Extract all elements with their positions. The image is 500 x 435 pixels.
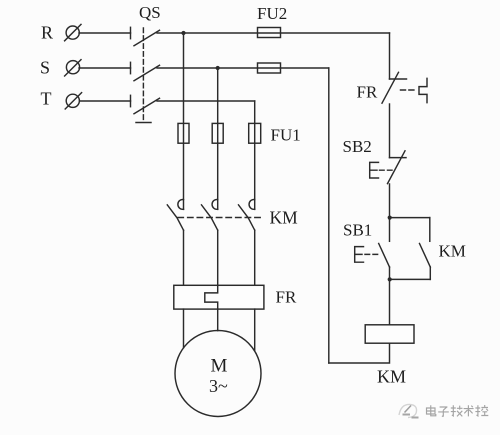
wire node B to KM coil — [389, 279, 391, 324]
fuse FU2 body — [258, 28, 281, 38]
pushbutton SB1 actuator dashed link — [365, 253, 379, 255]
fuse FU1-1 body — [178, 123, 189, 143]
wire S terminal to QS — [79, 67, 131, 69]
pushbutton SB1 actuator E — [355, 247, 364, 263]
QS blade S — [134, 65, 160, 81]
contactor KM main contact 3 arc — [249, 200, 255, 210]
wire control return riser — [328, 68, 330, 363]
wire SB1 lower terminal — [389, 267, 391, 279]
svg-text:SB2: SB2 — [343, 137, 372, 156]
watermark text zi — [438, 407, 449, 417]
pushbutton SB2 NC contact bar — [390, 157, 407, 159]
contactor KM main contact 3 blade — [239, 205, 255, 230]
thermal relay FR NC contact bar — [390, 78, 407, 80]
pushbutton SB2 blade — [388, 151, 406, 184]
contactor KM aux contact blade — [420, 244, 431, 268]
fuse FU1-3 body — [249, 123, 261, 143]
contactor KM main contact 2 blade — [202, 205, 218, 230]
node R terminal — [65, 24, 81, 40]
wire phase 2 FR to motor — [217, 309, 219, 331]
pushbutton SB1 blade — [379, 244, 390, 268]
svg-text:T: T — [41, 88, 52, 108]
contactor KM main contact 1 blade — [167, 205, 183, 230]
wire control hot: top right drop to FR contact — [389, 33, 391, 79]
wire phase T: QS to corner — [157, 100, 255, 102]
node B junction dot — [388, 277, 392, 281]
svg-text:QS: QS — [139, 3, 161, 22]
pushbutton SB1 upper terminal wire — [389, 218, 391, 242]
QS fixed contact tick S — [130, 62, 132, 73]
svg-text:FR: FR — [357, 83, 378, 102]
watermark text dian — [427, 405, 436, 416]
pushbutton SB2 actuator dashed link — [380, 169, 393, 171]
wire phase S vertical drop through FU1-2 — [217, 68, 219, 209]
node junction dot S / FU1-2 tap — [216, 66, 220, 70]
watermark logo — [399, 404, 419, 417]
wire R terminal to QS — [79, 32, 131, 34]
QS fixed contact tick R — [130, 27, 132, 38]
motor M body circle — [175, 331, 261, 417]
wire phase 1 FR to motor — [183, 309, 185, 348]
fuse FU1-2 body — [212, 123, 223, 143]
svg-text:3~: 3~ — [209, 376, 228, 396]
wire phase S: QS to fuse to control return corner — [157, 67, 329, 69]
thermal relay FR NC contact blade — [382, 72, 399, 103]
svg-text:FU2: FU2 — [257, 4, 287, 23]
wire phase R vertical drop through FU1-1 — [183, 33, 185, 209]
svg-text:S: S — [40, 57, 50, 77]
thermal relay FR heater element — [205, 285, 218, 309]
QS linkage dashed line — [142, 28, 144, 120]
pushbutton SB2 actuator E — [370, 162, 379, 178]
contactor KM aux contact upper wire — [429, 218, 431, 242]
wire phase 1 KM to FR box — [183, 230, 185, 285]
node A junction dot — [388, 216, 392, 220]
svg-text:M: M — [211, 356, 228, 377]
wire phase 3 FR to motor — [254, 309, 256, 351]
watermark text ji — [451, 405, 463, 416]
wire T terminal to QS — [80, 100, 131, 102]
svg-text:KM: KM — [270, 208, 299, 228]
wire KM coil to control return — [329, 343, 390, 363]
svg-text:R: R — [41, 23, 53, 43]
node S terminal — [65, 60, 81, 76]
contactor KM coil — [365, 325, 414, 343]
contactor KM main contact 2 arc — [212, 200, 218, 210]
svg-text:KM: KM — [439, 242, 466, 261]
thermal relay FR heater box — [174, 285, 264, 309]
svg-text:SB1: SB1 — [343, 220, 372, 239]
thermal relay FR trip dashed link — [401, 89, 418, 91]
svg-text:FR: FR — [276, 288, 297, 307]
svg-text:KM: KM — [377, 367, 406, 387]
wire phase R: QS to FU2 to right corner — [157, 32, 390, 34]
QS blade T — [134, 98, 160, 114]
wire KM aux branch bottom — [390, 278, 431, 280]
wire phase T vertical drop through FU1-3 — [254, 101, 256, 209]
wire phase 3 KM to FR box — [254, 230, 256, 285]
QS fixed contact tick T — [130, 95, 132, 106]
wire FR contact to SB2 — [389, 104, 391, 158]
watermark text shu — [464, 405, 474, 416]
svg-text:FU1: FU1 — [271, 126, 301, 145]
wire phase 2 KM to FR box — [217, 230, 219, 285]
fuse FU2b body (S phase control fuse) — [258, 63, 281, 73]
wire SB2 to node A — [389, 184, 391, 218]
wire node A to KM aux branch top — [390, 217, 430, 219]
QS linkage bottom bar — [136, 122, 151, 124]
thermal relay FR trip element symbol — [419, 78, 427, 102]
contactor KM linkage dashed line — [178, 217, 264, 219]
node T terminal — [65, 93, 81, 109]
node junction dot R / FU1-1 tap — [181, 31, 185, 35]
watermark text kong — [475, 405, 488, 416]
wire KM aux lower terminal — [429, 267, 431, 279]
contactor KM main contact 1 arc — [178, 200, 184, 210]
QS blade R — [134, 30, 160, 46]
